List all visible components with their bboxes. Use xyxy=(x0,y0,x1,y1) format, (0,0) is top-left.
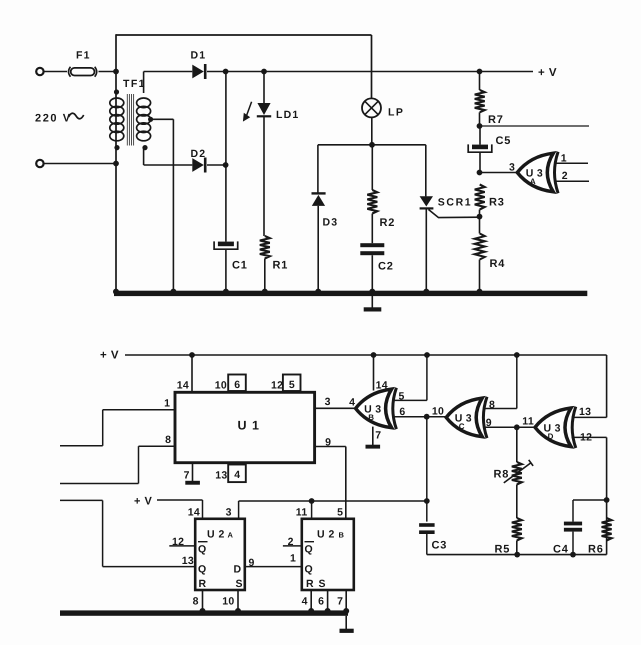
svg-text:D: D xyxy=(234,563,242,575)
svg-text:7: 7 xyxy=(375,430,381,442)
svg-text:2: 2 xyxy=(288,536,294,548)
svg-text:9: 9 xyxy=(486,417,492,429)
svg-text:9: 9 xyxy=(325,436,331,448)
svg-text:F1: F1 xyxy=(76,50,91,62)
svg-text:D3: D3 xyxy=(323,217,339,229)
svg-text:Q: Q xyxy=(198,563,206,575)
svg-text:R7: R7 xyxy=(488,114,504,126)
svg-text:5: 5 xyxy=(399,391,405,403)
svg-text:11: 11 xyxy=(522,416,534,428)
svg-text:1: 1 xyxy=(290,552,296,564)
svg-text:13: 13 xyxy=(215,469,227,481)
svg-text:+ V: + V xyxy=(100,350,119,362)
svg-text:LD1: LD1 xyxy=(276,109,299,121)
svg-text:B: B xyxy=(339,531,345,540)
svg-text:1: 1 xyxy=(561,152,567,164)
svg-text:A: A xyxy=(228,531,234,540)
svg-text:LP: LP xyxy=(388,106,404,118)
svg-text:13: 13 xyxy=(182,555,194,567)
svg-text:5: 5 xyxy=(289,379,295,391)
svg-text:10: 10 xyxy=(215,380,227,392)
svg-text:R8: R8 xyxy=(494,469,510,481)
svg-text:12: 12 xyxy=(172,536,184,548)
svg-text:C: C xyxy=(459,422,465,431)
svg-text:+ V: + V xyxy=(538,67,557,79)
svg-text:3: 3 xyxy=(325,396,331,408)
svg-text:U 2: U 2 xyxy=(207,528,225,540)
svg-text:3: 3 xyxy=(509,161,515,173)
svg-text:14: 14 xyxy=(188,507,200,519)
svg-text:10: 10 xyxy=(222,596,234,608)
svg-text:C2: C2 xyxy=(378,261,394,273)
svg-text:C1: C1 xyxy=(232,260,248,272)
svg-text:14: 14 xyxy=(376,379,388,391)
svg-text:R: R xyxy=(199,578,207,590)
svg-text:TF1: TF1 xyxy=(123,78,146,90)
svg-text:12: 12 xyxy=(580,432,592,444)
svg-text:R: R xyxy=(306,578,314,590)
svg-text:C5: C5 xyxy=(496,135,512,147)
svg-text:D1: D1 xyxy=(191,50,207,62)
svg-text:D: D xyxy=(548,432,554,441)
svg-text:A: A xyxy=(530,177,536,186)
svg-text:220 V: 220 V xyxy=(35,113,72,125)
svg-text:U 2: U 2 xyxy=(317,528,335,540)
svg-text:R3: R3 xyxy=(489,196,505,208)
svg-text:SCR1: SCR1 xyxy=(438,196,472,208)
svg-text:+ V: + V xyxy=(134,496,152,508)
svg-text:13: 13 xyxy=(579,406,591,418)
svg-text:S: S xyxy=(236,578,243,590)
svg-text:R1: R1 xyxy=(273,260,289,272)
svg-text:U 1: U 1 xyxy=(238,419,260,433)
svg-text:1: 1 xyxy=(164,398,170,410)
svg-text:2: 2 xyxy=(562,170,568,182)
svg-text:6: 6 xyxy=(399,406,405,418)
svg-text:B: B xyxy=(368,413,374,422)
svg-text:6: 6 xyxy=(234,379,240,391)
svg-text:C3: C3 xyxy=(432,539,448,551)
svg-text:7: 7 xyxy=(337,596,343,608)
svg-text:Q: Q xyxy=(305,563,313,575)
svg-text:12: 12 xyxy=(271,380,283,392)
svg-text:R4: R4 xyxy=(490,258,506,270)
svg-text:D2: D2 xyxy=(191,148,207,160)
svg-text:4: 4 xyxy=(302,596,308,608)
svg-text:S: S xyxy=(319,578,326,590)
svg-text:5: 5 xyxy=(337,507,343,519)
svg-text:3: 3 xyxy=(226,507,232,519)
svg-text:R2: R2 xyxy=(380,217,396,229)
svg-text:14: 14 xyxy=(177,380,189,392)
svg-text:8: 8 xyxy=(489,399,495,411)
svg-text:6: 6 xyxy=(318,596,324,608)
svg-text:4: 4 xyxy=(234,469,240,481)
svg-text:11: 11 xyxy=(296,507,308,519)
svg-text:8: 8 xyxy=(193,596,199,608)
svg-text:4: 4 xyxy=(349,397,355,409)
svg-text:Q: Q xyxy=(305,544,313,556)
svg-text:10: 10 xyxy=(432,406,444,418)
svg-text:8: 8 xyxy=(165,434,171,446)
svg-text:7: 7 xyxy=(184,469,190,481)
svg-text:Q: Q xyxy=(198,544,206,556)
